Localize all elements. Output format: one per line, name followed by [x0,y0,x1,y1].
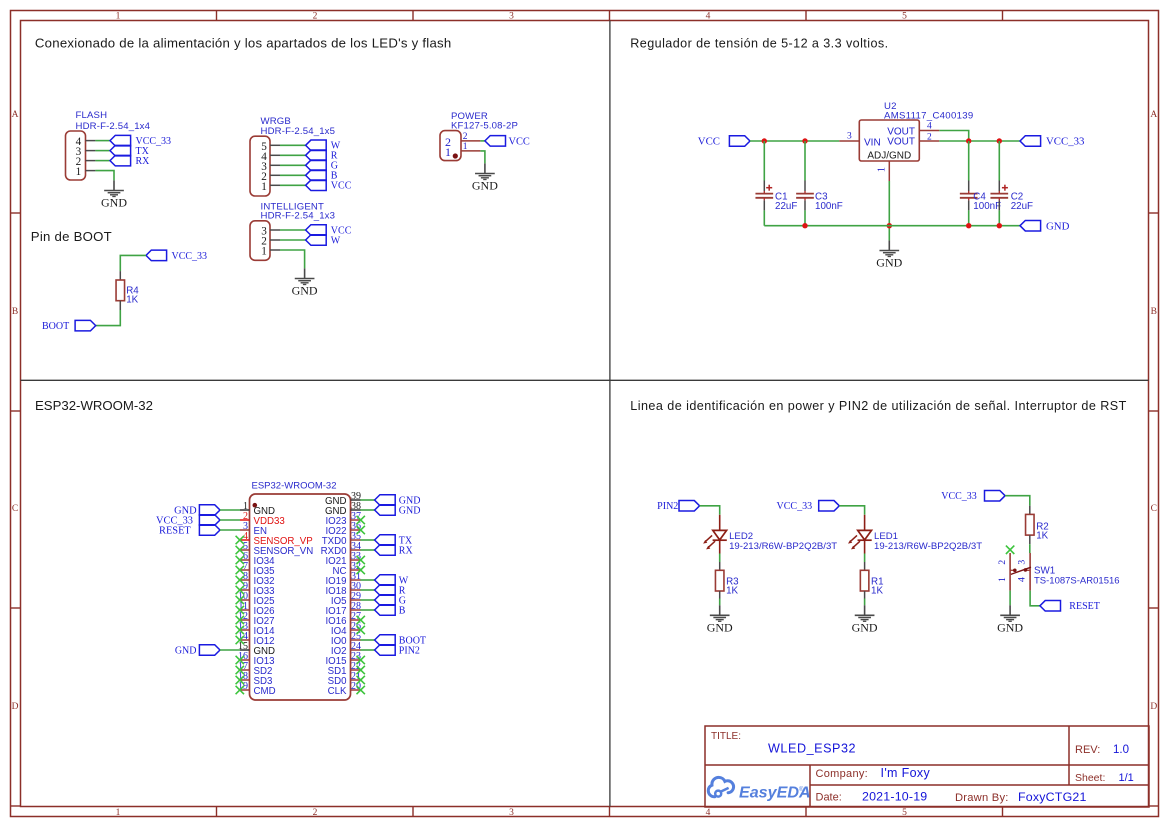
connector P-FLASH pins [86,141,96,171]
wire PIN2 to LED2 [700,506,720,515]
wire WRGB pin4 to R [280,154,306,156]
capacitor C3 labels [815,192,843,212]
svg-text:3: 3 [509,808,514,818]
title block Drawn By [955,790,1087,804]
svg-text:A: A [1150,110,1157,120]
wire esp pin30 to R [361,589,375,591]
svg-text:W: W [331,235,341,246]
svg-text:1K: 1K [871,586,883,597]
svg-text:CMD: CMD [254,686,276,697]
wire R4 to BOOT [96,310,121,326]
svg-text:3: 3 [1017,560,1028,565]
net flag RX [110,155,150,167]
svg-text:1: 1 [876,167,887,172]
resistor R4 bottom lead [119,301,121,310]
svg-text:3: 3 [509,11,514,21]
capacitor C3 bottom lead [804,200,806,210]
junction VCC rail C3 [802,138,807,143]
switch SW1 labels [1034,565,1120,586]
wire LED1 to R1 [864,554,866,563]
net flag BOOT esp pin25 [375,635,426,647]
resistor R2 labels [1036,522,1049,542]
net flag VCC_33 reset [941,490,1005,502]
svg-text:®: ® [799,786,804,793]
wire capacitor C3 top [804,141,806,181]
capacitor C3 top lead [804,181,806,192]
wire R3 to ground [719,599,721,606]
resistor R4 [116,280,125,301]
connector P-WRGB pins [270,145,280,185]
wire SW1 pin4 to RESET [1030,591,1040,606]
chip U1 right pin names [321,496,347,697]
net flag R [306,150,338,162]
svg-text:2: 2 [997,560,1008,565]
capacitor C4 top lead [968,181,970,192]
wire U2 VOUT pin2 to VCC_33 [939,140,1020,142]
connector P-WRGB pin numbers [261,141,267,193]
wire esp pin38 to GND [361,509,375,511]
junction VOUT rail C4 [966,138,971,143]
svg-text:22uF: 22uF [775,201,797,212]
svg-text:19-213/R6W-BP2Q2B/3T: 19-213/R6W-BP2Q2B/3T [874,541,982,552]
svg-text:22uF: 22uF [1011,201,1033,212]
svg-text:GND: GND [997,621,1023,635]
svg-text:VCC: VCC [331,181,352,192]
resistor R4 labels [126,285,139,305]
ground R3 [707,605,733,634]
wire VCC_33 to R2 [1005,496,1030,506]
connector P-FLASH labels [76,110,151,132]
ground R1 [852,605,878,634]
svg-text:Linea de identificación en pow: Linea de identificación en power y PIN2 … [630,399,1126,413]
svg-text:GND: GND [876,256,902,270]
net flag TX [110,145,150,157]
connector POWER pin names [445,135,451,159]
svg-text:2: 2 [313,11,318,21]
svg-text:ESP32-WROOM-32: ESP32-WROOM-32 [252,480,337,491]
quadrant divider vertical [609,21,611,807]
capacitor C3 [796,191,814,200]
regulator U2 body [859,120,919,161]
svg-text:FoxyCTG21: FoxyCTG21 [1018,790,1087,804]
chip U1 left pin numbers [238,501,248,692]
wire FLASH pin4 to VCC_33 [95,140,110,142]
svg-text:4: 4 [1017,577,1028,582]
junction ground rail C3 [802,223,807,228]
svg-text:RX: RX [136,156,151,167]
wire LED2 to R3 [719,554,721,563]
LED LED1 labels [874,531,982,552]
net flag VCC_33 led1 [777,501,840,512]
svg-text:5: 5 [902,11,907,21]
regulator U2 pin 4 [919,130,939,132]
capacitor C1 bottom lead [763,200,765,210]
svg-text:RESET: RESET [1069,601,1100,612]
svg-text:RESET: RESET [159,526,191,537]
regulator U2 pin names [864,126,915,161]
svg-text:TS-1087S-AR01516: TS-1087S-AR01516 [1034,575,1120,586]
resistor R4 top lead [119,271,121,280]
frame column numbers bottom [116,808,908,818]
net flag VCC 2 [306,225,352,237]
svg-text:Drawn By:: Drawn By: [955,792,1009,804]
LED LED2 anode pin [719,515,721,531]
svg-text:KF127-5.08-2P: KF127-5.08-2P [451,121,518,132]
svg-text:GND: GND [1046,220,1070,232]
svg-text:Pin de BOOT: Pin de BOOT [31,229,112,244]
frame column numbers top [116,11,908,21]
svg-text:B: B [399,605,406,616]
switch SW1 pin numbers [997,560,1027,582]
capacitor C2 labels [1011,192,1033,212]
svg-text:PIN2: PIN2 [399,645,420,656]
svg-text:ESP32-WROOM-32: ESP32-WROOM-32 [35,398,153,413]
net flag TX esp pin35 [375,535,413,547]
net flag VCC_33 boot [146,250,207,262]
regulator U2 pin 3 [839,140,859,142]
wire FLASH pin2 to RX [95,160,110,162]
wire FLASH pin3 to TX [95,150,110,152]
svg-text:VCC_33: VCC_33 [172,251,208,262]
connector POWER pins [461,141,480,151]
capacitor C1 top lead [763,181,765,192]
svg-text:4: 4 [706,808,711,818]
wire INTELLIGENT pin2 to W [280,239,306,241]
resistor R2 top lead [1029,506,1031,515]
net flag RESET esp pin3 [159,525,220,537]
svg-text:Sheet:: Sheet: [1075,772,1105,784]
net flag R esp pin30 [375,585,406,597]
svg-text:Company:: Company: [816,768,869,780]
junction VCC rail C1 [762,138,767,143]
connector P-FLASH pin numbers [76,136,82,178]
wire capacitor C1 bottom [763,210,765,225]
net flag VCC_33 [110,135,171,147]
net flag B [306,170,338,182]
svg-text:GND: GND [852,621,878,635]
connector P-WRGB body [250,136,270,196]
wire esp pin25 to BOOT [361,639,375,641]
LED LED2 cathode pin [719,540,721,553]
svg-text:GND: GND [292,284,318,298]
svg-text:VIN: VIN [864,137,881,148]
quadrant divider horizontal [21,379,1149,381]
svg-text:1: 1 [116,11,121,21]
chip U1 left no-connect marks [236,536,244,694]
wire FLASH pin1 to ground [95,171,114,181]
svg-text:FLASH: FLASH [76,110,108,121]
net flag GND regulator [1020,220,1070,232]
ground INTELLIGENT [292,268,318,297]
svg-text:C: C [1151,504,1157,514]
title block Sheet [1075,772,1134,784]
wire VCC_33 flag to pin2 [220,519,240,521]
connector P-FLASH body [66,131,86,180]
chip U1 right pins [351,500,361,690]
wire SW1 pin1 to ground [1009,591,1011,606]
net flag GND esp pin38 [375,505,421,517]
wire RESET flag to pin3 [220,529,240,531]
svg-text:WLED_ESP32: WLED_ESP32 [768,742,856,756]
wire POWER pin1 to ground [480,151,485,164]
ground SW1 [997,605,1023,634]
switch SW1 pins [1010,553,1030,591]
regulator U2 pin 1 [888,161,890,181]
wire esp pin35 to TX [361,539,375,541]
junction VOUT rail C2 [997,138,1002,143]
svg-text:1K: 1K [126,295,138,306]
EasyEDA logo [708,777,810,801]
resistor R3 bottom lead [719,591,721,599]
chip U1 body [250,494,351,700]
svg-text:B: B [12,307,18,317]
net flag G [306,160,338,172]
connector P-INTELLIGENT pin numbers [261,226,267,258]
svg-text:VCC_33: VCC_33 [941,491,977,502]
svg-text:CLK: CLK [328,686,347,697]
wire esp pin34 to RX [361,549,375,551]
net flag B esp pin28 [375,605,406,617]
resistor R3 labels [726,576,739,596]
svg-text:ADJ/GND: ADJ/GND [867,151,911,162]
capacitor C4 [960,191,978,200]
chip U1 left pin names [254,506,314,697]
net flag GND esp pin39 [375,495,421,507]
net flag W [306,140,341,152]
svg-text:VCC_33: VCC_33 [1046,136,1084,148]
svg-text:2: 2 [313,808,318,818]
svg-text:1/1: 1/1 [1119,772,1134,784]
regulator U2 pin numbers [847,121,932,172]
svg-text:4: 4 [706,11,711,21]
svg-text:I'm Foxy: I'm Foxy [881,766,931,780]
svg-text:VCC: VCC [698,136,720,148]
connector POWER body [440,131,461,161]
wire WRGB pin5 to W [280,144,306,146]
svg-text:B: B [1151,307,1157,317]
svg-text:1: 1 [116,808,121,818]
wire esp pin28 to B [361,609,375,611]
wire INTELLIGENT pin3 to VCC [280,229,306,231]
svg-text:Date:: Date: [816,792,842,804]
svg-text:1K: 1K [726,586,738,597]
svg-text:D: D [12,702,19,712]
LED LED2 labels [729,531,837,552]
title block TITLE label [711,731,741,742]
LED LED1 [848,530,872,549]
wire capacitor C2 bottom [998,210,1000,225]
chip U1 left pins [240,510,250,690]
wire esp pin39 to GND [361,499,375,501]
svg-text:2021-10-19: 2021-10-19 [862,790,927,804]
net flag VCC_33 esp pin2 [156,515,220,527]
net flag RX esp pin34 [375,545,414,557]
svg-text:1: 1 [997,577,1008,582]
wire POWER pin2 to VCC [480,140,485,142]
net flag GND esp pin15 [175,645,220,657]
ground FLASH [101,180,127,209]
resistor R1 [860,570,869,591]
wire capacitor C4 top [968,141,970,181]
label Pin de BOOT [31,229,112,244]
svg-text:C: C [12,504,18,514]
chip U1 pin1 marker dot [253,503,258,508]
chip U1 right pin numbers [351,491,361,692]
connector POWER pin1 marker dot [453,153,458,158]
title block title WLED_ESP32 [768,742,856,756]
svg-text:Conexionado de la alimentación: Conexionado de la alimentación y los apa… [35,35,452,50]
svg-text:1K: 1K [1036,531,1048,542]
wire capacitor C1 top [763,141,765,181]
connector P-INTELLIGENT pins [270,230,280,250]
title block Company [816,766,931,780]
resistor R2 [1026,514,1035,535]
wire R1 to ground [864,599,866,606]
capacitor C2 plus sign [1002,185,1008,191]
wire esp pin24 to PIN2 [361,649,375,651]
svg-text:PIN2: PIN2 [657,501,678,512]
section title quadrant 3 [35,398,153,413]
net flag BOOT [42,320,96,332]
title block Date [816,790,928,804]
net flag W 2 [306,235,341,247]
svg-text:VCC_33: VCC_33 [777,501,813,512]
svg-text:19-213/R6W-BP2Q2B/3T: 19-213/R6W-BP2Q2B/3T [729,541,837,552]
capacitor C2 [990,191,1008,200]
section title quadrant 2 [630,36,888,50]
svg-text:100nF: 100nF [815,201,843,212]
section title quadrant 1 [35,35,452,50]
regulator U2 labels [884,101,973,121]
svg-text:HDR-F-2.54_1x4: HDR-F-2.54_1x4 [76,121,151,132]
resistor R1 bottom lead [864,591,866,599]
wire ground rail [764,225,1020,227]
svg-text:100nF: 100nF [973,201,1001,212]
LED LED2 [703,530,727,549]
wire capacitor C2 top [998,141,1000,181]
wire WRGB pin3 to G [280,164,306,166]
wire capacitor C4 bottom [968,210,970,225]
title block REV [1075,744,1129,756]
LED LED1 anode pin [864,515,866,531]
svg-text:1: 1 [76,166,82,178]
capacitor C4 bottom lead [968,200,970,210]
wire esp pin29 to G [361,599,375,601]
svg-text:Regulador de tensión de 5-12 a: Regulador de tensión de 5-12 a 3.3 volti… [630,36,888,50]
svg-text:GND: GND [175,645,197,656]
wire WRGB pin1 to VCC [280,184,306,186]
wire U2 ADJ to ground rail [888,181,890,240]
connector P-WRGB labels [261,116,336,137]
svg-text:D: D [1150,702,1157,712]
connector POWER pin numbers [463,132,468,152]
frame row letters right [1150,110,1157,712]
svg-text:HDR-F-2.54_1x3: HDR-F-2.54_1x3 [261,211,336,222]
svg-text:3: 3 [847,131,852,141]
wire VCC_33 to R4 [120,255,146,271]
svg-text:RX: RX [399,545,414,556]
net flag PIN2 led2 [657,501,699,512]
wire INTELLIGENT pin1 to ground [280,250,305,268]
svg-text:HDR-F-2.54_1x5: HDR-F-2.54_1x5 [261,126,336,137]
svg-text:1: 1 [445,145,451,159]
svg-text:VCC: VCC [509,136,530,147]
switch SW1 no-connect mark [1006,546,1014,554]
resistor R2 bottom lead [1029,535,1031,544]
connector P-INTELLIGENT labels [261,202,336,222]
LED LED1 cathode pin [864,540,866,553]
net flag W esp pin31 [375,575,409,587]
capacitor C4 labels [973,192,1001,212]
svg-text:TITLE:: TITLE: [711,731,741,742]
wire GND flag to pin1 [220,509,240,511]
junction ground rail C4 [966,223,971,228]
net flag GND esp pin1 [174,505,220,517]
svg-text:1.0: 1.0 [1113,744,1129,756]
capacitor C2 bottom lead [998,200,1000,210]
svg-text:GND: GND [472,179,498,193]
wire esp pin31 to W [361,579,375,581]
net flag VCC [306,180,352,192]
frame row letters left [12,110,19,712]
svg-text:GND: GND [707,621,733,635]
resistor R1 labels [871,576,884,596]
resistor R3 [715,570,724,591]
wire capacitor C3 bottom [804,210,806,225]
wire R2 to SW1 [1029,544,1031,553]
wire WRGB pin2 to B [280,174,306,176]
chip U1 ESP32-WROOM-32 label [252,480,337,491]
switch SW1 contacts and lever [1011,567,1031,574]
connector P-INTELLIGENT body [250,221,270,260]
connector POWER labels [451,111,518,132]
svg-text:GND: GND [101,196,127,210]
net flag VCC_33 regulator output [1020,136,1084,148]
svg-text:BOOT: BOOT [42,321,69,332]
svg-text:REV:: REV: [1075,744,1100,756]
svg-text:GND: GND [399,505,421,516]
junction ground rail C2 [997,223,1002,228]
capacitor C1 labels [775,192,797,212]
resistor R1 top lead [864,562,866,570]
ground POWER [472,163,498,192]
junction ground rail ADJ [887,223,892,228]
wire U2 VOUT pin4 loop [939,131,968,142]
svg-text:A: A [12,110,19,120]
regulator U2 pin 2 [919,140,939,142]
svg-text:VOUT: VOUT [887,136,915,147]
wire VCC to U2 VIN [750,140,839,142]
resistor R3 top lead [719,562,721,570]
capacitor C1 [755,191,773,200]
chip U1 right no-connect marks [357,516,365,694]
net flag G esp pin29 [375,595,406,607]
wire GND flag to pin15 [220,649,240,651]
svg-text:5: 5 [902,808,907,818]
net flag VCC power [485,136,530,148]
svg-text:1: 1 [261,181,267,193]
svg-text:1: 1 [261,246,267,258]
net flag VCC regulator input [698,136,750,148]
net flag RESET switch [1040,601,1100,613]
wire VCC_33 to LED1 [839,506,864,515]
capacitor C2 top lead [998,181,1000,192]
title block border [705,726,1149,807]
ground U2 [876,240,902,269]
net flag PIN2 esp pin24 [375,645,420,657]
capacitor C1 plus sign [766,185,772,191]
section title quadrant 4 [630,399,1126,413]
